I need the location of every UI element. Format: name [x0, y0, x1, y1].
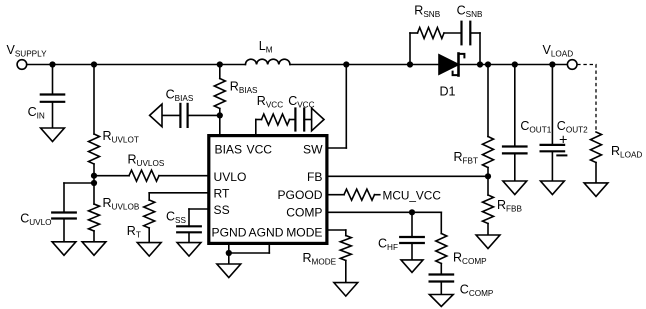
- pin label COMP: [286, 205, 322, 219]
- wire RUVLOT to junction: [93, 164, 95, 183]
- svg-text:RT: RT: [214, 186, 231, 200]
- capacitor CUVLO: [52, 213, 76, 219]
- label RT resistor: [127, 224, 141, 240]
- label RUVLOS: [128, 153, 165, 169]
- svg-text:CIN: CIN: [28, 105, 45, 121]
- wire SW pin stub: [327, 147, 346, 149]
- label CVCC: [288, 94, 314, 110]
- svg-text:AGND: AGND: [249, 225, 284, 239]
- wire RVCC to CVCC: [290, 119, 296, 121]
- wire rail LM to D1 anode: [290, 64, 439, 66]
- svg-text:RSNB: RSNB: [414, 4, 440, 20]
- svg-text:COUT1: COUT1: [520, 119, 551, 135]
- svg-text:D1: D1: [440, 85, 456, 99]
- svg-text:RLOAD: RLOAD: [611, 144, 642, 160]
- svg-text:CUVLO: CUVLO: [20, 211, 51, 227]
- node junction CIN: [49, 61, 55, 67]
- node FB junction: [485, 173, 491, 179]
- capacitor CVCC: [295, 109, 304, 131]
- ground COUT1: [503, 181, 527, 195]
- wire RCOMP top lead: [440, 212, 442, 233]
- pin label PGND: [212, 225, 247, 239]
- wire RCOMP to CCOMP: [440, 264, 442, 275]
- wire CHF bottom lead: [411, 243, 413, 260]
- pin label UVLO: [214, 170, 247, 184]
- pin label PGOOD: [277, 188, 322, 202]
- ground CUVLO: [52, 242, 76, 256]
- wire snubber to RSNB: [410, 32, 418, 34]
- wire FB pin to divider: [327, 175, 488, 177]
- wire COUT1 top lead: [514, 65, 516, 147]
- wire RFBB top lead: [487, 176, 489, 195]
- wire CSS top lead: [188, 209, 190, 226]
- ground CSS: [177, 243, 201, 257]
- wire CSNB to corner: [470, 32, 480, 34]
- wire PGND to ground: [228, 253, 230, 264]
- wire snubber left riser: [409, 33, 411, 65]
- svg-text:RUVLOB: RUVLOB: [103, 196, 140, 212]
- svg-text:CSS: CSS: [166, 210, 186, 226]
- wire CVCC to ground: [304, 119, 312, 121]
- svg-text:CBIAS: CBIAS: [166, 88, 194, 104]
- label CIN: [28, 105, 45, 121]
- ground RMODE: [334, 283, 358, 297]
- svg-text:PGND: PGND: [212, 225, 247, 239]
- node junction COUT1: [512, 61, 518, 67]
- wire CIN top: [52, 65, 54, 95]
- svg-text:RT: RT: [127, 224, 141, 240]
- wire COUT2 top lead: [551, 65, 553, 145]
- diode D1 schottky: [439, 54, 464, 76]
- ground COUT2: [541, 181, 565, 195]
- label VLOAD: [543, 43, 574, 59]
- op-amp U1 boost controller box: [209, 136, 327, 244]
- wire RBIAS bottom lead: [219, 109, 221, 116]
- svg-text:RUVLOS: RUVLOS: [128, 153, 165, 169]
- wire CHF top lead: [411, 212, 413, 237]
- node junction COUT2: [549, 61, 555, 67]
- capacitor CSNB: [462, 22, 471, 45]
- label CSNB: [457, 4, 483, 20]
- wire PGOOD pin: [327, 194, 344, 196]
- node SW junction: [343, 61, 349, 67]
- label RFBT: [454, 150, 479, 166]
- ground PGND AGND: [217, 264, 241, 278]
- wire PGND pin: [228, 244, 230, 253]
- svg-text:LM: LM: [259, 39, 273, 55]
- svg-text:CSNB: CSNB: [457, 4, 483, 20]
- svg-text:RFBB: RFBB: [497, 198, 522, 214]
- label RVCC: [257, 94, 283, 110]
- resistor RVCC: [262, 114, 290, 125]
- ground CBIAS sideways: [150, 104, 162, 127]
- svg-text:RVCC: RVCC: [257, 94, 283, 110]
- wire RT pin: [149, 192, 209, 194]
- svg-text:VSUPPLY: VSUPPLY: [7, 43, 48, 59]
- node VSUPPLY input terminal: [17, 60, 27, 70]
- capacitor COUT1: [503, 147, 527, 154]
- wire COUT2 bottom lead: [551, 151, 553, 181]
- ground RUVLOB: [82, 242, 106, 256]
- label RFBB: [497, 198, 522, 214]
- pin label RT: [214, 186, 231, 200]
- wire CUVLO top lead: [63, 183, 65, 213]
- wire SS pin: [189, 208, 209, 210]
- svg-text:VCC: VCC: [247, 142, 273, 156]
- ground CVCC sideways: [312, 108, 324, 131]
- wire RT bottom lead: [148, 228, 150, 243]
- resistor RLOAD: [591, 132, 602, 163]
- svg-text:COMP: COMP: [286, 205, 322, 219]
- node CUVLO junction: [91, 180, 97, 186]
- node junction snubber left: [407, 61, 413, 67]
- wire rail D1 to VLOAD: [459, 64, 568, 66]
- wire RFBT bottom lead: [487, 168, 489, 177]
- node VLOAD output terminal: [567, 60, 577, 70]
- label CSS: [166, 210, 186, 226]
- node UVLO junction: [91, 173, 97, 179]
- wire RUVLOT top lead: [93, 65, 95, 135]
- pin label FB: [307, 170, 322, 184]
- resistor RUVLOT: [89, 134, 100, 164]
- resistor PGOOD pullup: [344, 189, 375, 200]
- node COMP junction: [409, 209, 415, 215]
- svg-text:VLOAD: VLOAD: [543, 43, 574, 59]
- wire snubber right riser: [479, 33, 481, 65]
- svg-text:UVLO: UVLO: [214, 170, 247, 184]
- label LM: [259, 39, 273, 55]
- resistor RBIAS: [214, 79, 225, 109]
- node PGND AGND junction: [226, 250, 232, 256]
- wire RUVLOB bottom lead: [93, 231, 95, 242]
- svg-text:PGOOD: PGOOD: [277, 188, 322, 202]
- wire VCC pin: [255, 120, 257, 138]
- capacitor COUT2 polarized: [541, 133, 568, 156]
- svg-text:SS: SS: [214, 203, 230, 217]
- wire SW riser: [345, 65, 347, 149]
- label RCOMP: [453, 251, 487, 267]
- wire rail VSUPPLY to LM: [27, 64, 246, 66]
- resistor RMODE: [340, 236, 351, 261]
- wire RBIAS top lead: [219, 65, 221, 79]
- wire RLOAD bottom lead: [595, 163, 597, 183]
- svg-text:+: +: [559, 133, 567, 149]
- wire RSNB to CSNB: [444, 32, 462, 34]
- pin label SS: [214, 203, 230, 217]
- wire RT down lead: [148, 193, 150, 200]
- label CHF: [378, 237, 398, 253]
- label RUVLOT: [103, 129, 139, 145]
- capacitor CHF: [400, 237, 424, 243]
- wire BIAS pin: [219, 115, 221, 137]
- wire COMP pin: [327, 211, 441, 213]
- node junction RBIAS top: [217, 61, 223, 67]
- wire COUT1 bottom lead: [514, 153, 516, 181]
- label MCU_VCC net: [383, 189, 442, 203]
- node junction RFBT top: [485, 61, 491, 67]
- resistor RCOMP: [436, 234, 447, 264]
- resistor RT: [144, 200, 155, 228]
- label RUVLOB: [103, 196, 140, 212]
- wire VCC to RVCC: [256, 119, 262, 121]
- ground CCOMP: [429, 295, 453, 307]
- wire RUVLOS to UVLO pin: [159, 175, 209, 177]
- node junction RUVLOT top: [91, 61, 97, 67]
- svg-text:MCU_VCC: MCU_VCC: [383, 189, 442, 203]
- label COUT1: [520, 119, 551, 135]
- wire CBIAS left lead: [162, 114, 180, 116]
- node junction snubber right: [477, 61, 483, 67]
- svg-text:COUT2: COUT2: [557, 119, 588, 135]
- wire PGOOD to MCU_VCC: [375, 194, 380, 196]
- ground RLOAD: [584, 183, 608, 197]
- capacitor CCOMP: [430, 275, 454, 282]
- pin label BIAS: [215, 142, 243, 156]
- label COUT2: [557, 119, 588, 135]
- svg-text:CHF: CHF: [378, 237, 398, 253]
- capacitor CBIAS: [180, 104, 187, 127]
- resistor RFBB: [483, 195, 494, 224]
- wire CUVLO bottom lead: [63, 219, 65, 242]
- wire UVLO sense: [94, 175, 129, 177]
- label D1: [440, 85, 456, 99]
- wire CSS bottom lead: [188, 232, 190, 242]
- label CBIAS: [166, 88, 194, 104]
- resistor RUVLOS: [129, 170, 159, 181]
- svg-text:RBIAS: RBIAS: [230, 80, 258, 96]
- ground RFBB: [476, 235, 500, 249]
- svg-text:CCOMP: CCOMP: [460, 283, 494, 299]
- pin label VCC: [247, 142, 273, 156]
- svg-text:SW: SW: [303, 142, 323, 156]
- capacitor CSS: [177, 226, 201, 232]
- ground RT: [137, 243, 161, 257]
- wire CUVLO branch: [64, 182, 94, 184]
- pin label MODE: [286, 225, 322, 239]
- ground CHF: [401, 260, 423, 273]
- wire CCOMP bottom lead: [440, 282, 442, 295]
- pin label AGND: [249, 225, 284, 239]
- wire RMODE bottom lead: [345, 261, 347, 283]
- svg-text:BIAS: BIAS: [215, 142, 243, 156]
- wire dashed VLOAD to RLOAD: [577, 65, 596, 133]
- node BIAS junction: [217, 112, 223, 118]
- label CCOMP: [460, 283, 494, 299]
- svg-text:RUVLOT: RUVLOT: [103, 129, 139, 145]
- wire RFBT top lead: [487, 65, 489, 137]
- label RSNB: [414, 4, 440, 20]
- inductor LM: [245, 59, 290, 64]
- label RMODE: [303, 251, 337, 267]
- ground CIN: [41, 128, 65, 142]
- svg-text:RMODE: RMODE: [303, 251, 337, 267]
- capacitor CIN: [41, 95, 64, 102]
- label CUVLO: [20, 211, 51, 227]
- resistor RSNB: [418, 28, 445, 39]
- label VSUPPLY: [7, 43, 48, 59]
- pin label SW: [303, 142, 323, 156]
- wire MODE pin: [327, 230, 346, 236]
- svg-text:RCOMP: RCOMP: [453, 251, 487, 267]
- svg-text:MODE: MODE: [286, 225, 322, 239]
- label RBIAS: [230, 80, 258, 96]
- wire RFBB bottom lead: [487, 224, 489, 236]
- wire AGND pin: [229, 244, 269, 253]
- label RLOAD: [611, 144, 642, 160]
- svg-text:RFBT: RFBT: [454, 150, 479, 166]
- svg-text:FB: FB: [307, 170, 322, 184]
- svg-text:CVCC: CVCC: [288, 94, 314, 110]
- wire CBIAS right lead: [188, 114, 220, 116]
- wire RUVLOB top lead: [93, 183, 95, 204]
- resistor RUVLOB: [89, 204, 100, 231]
- resistor RFBT: [483, 137, 494, 168]
- wire CIN bottom: [52, 102, 54, 128]
